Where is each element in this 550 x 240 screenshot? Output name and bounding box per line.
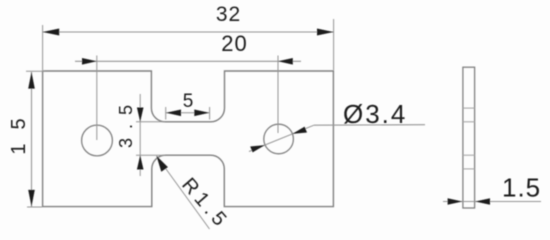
svg-text:20: 20 [221, 31, 247, 56]
svg-text:1.5: 1.5 [502, 173, 541, 203]
svg-text:5: 5 [183, 91, 194, 112]
svg-text:3.5: 3.5 [116, 96, 136, 148]
svg-text:Ø3.4: Ø3.4 [343, 99, 407, 129]
svg-text:15: 15 [8, 104, 30, 154]
svg-text:32: 32 [216, 3, 241, 26]
